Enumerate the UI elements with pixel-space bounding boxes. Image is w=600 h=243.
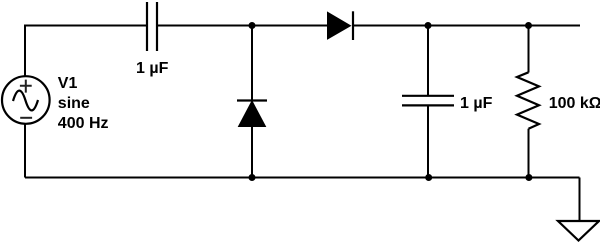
- label V1 name and value (V1 / sine / 400 Hz): [58, 75, 109, 132]
- node B junction dot (top of C2): [425, 22, 432, 29]
- wire: D1 anode down to bottom rail: [251, 127, 253, 178]
- resistor R1 (vertical zigzag, 100 kΩ): [517, 72, 539, 128]
- svg-text:100 kΩ: 100 kΩ: [549, 95, 600, 112]
- svg-text:V1: V1: [58, 75, 78, 92]
- wire: node C down to R1 top: [528, 26, 530, 73]
- wire: R1 bottom down to bottom rail: [528, 129, 530, 178]
- ground (open triangle symbol): [558, 221, 599, 241]
- capacitor C1 (series, 1 µF): [147, 2, 157, 51]
- diode D2 (series, pointing right: triangle, cathode bar at right): [328, 11, 354, 40]
- svg-text:1 µF: 1 µF: [460, 95, 493, 112]
- wire: node A to D2 anode: [252, 25, 327, 27]
- diode D1 (shunt, pointing up: cathode bar top, triangle below): [237, 101, 267, 127]
- wire: source bottom lead down to bottom rail: [24, 124, 26, 178]
- wire: D2 cathode right along top rail to stub end: [354, 25, 580, 27]
- wire: node B down to C2 top plate: [427, 26, 429, 96]
- wire: C2 bottom plate down to bottom rail: [427, 106, 429, 178]
- svg-text:sine: sine: [58, 95, 90, 112]
- wire: node A down to D1 cathode: [251, 26, 253, 101]
- node F junction dot (bottom of R1): [525, 174, 532, 181]
- node D junction dot (bottom of D1): [249, 174, 256, 181]
- svg-text:1 µF: 1 µF: [136, 60, 169, 77]
- svg-text:400 Hz: 400 Hz: [58, 115, 109, 132]
- wire: bottom rail from source to ground drop: [25, 177, 580, 179]
- voltage source V1 (sine source circle with + / - and sine wave): [2, 76, 50, 124]
- wire: C1 right plate to node A: [158, 25, 252, 27]
- node C junction dot (top of R1): [525, 22, 532, 29]
- node A junction dot (top of D1): [249, 22, 256, 29]
- wire: source top lead up and right to C1 left plate: [25, 26, 146, 77]
- node E junction dot (bottom of C2): [425, 174, 432, 181]
- wire: ground drop from bottom rail: [579, 178, 581, 221]
- capacitor C2 (shunt, 1 µF): [402, 96, 454, 106]
